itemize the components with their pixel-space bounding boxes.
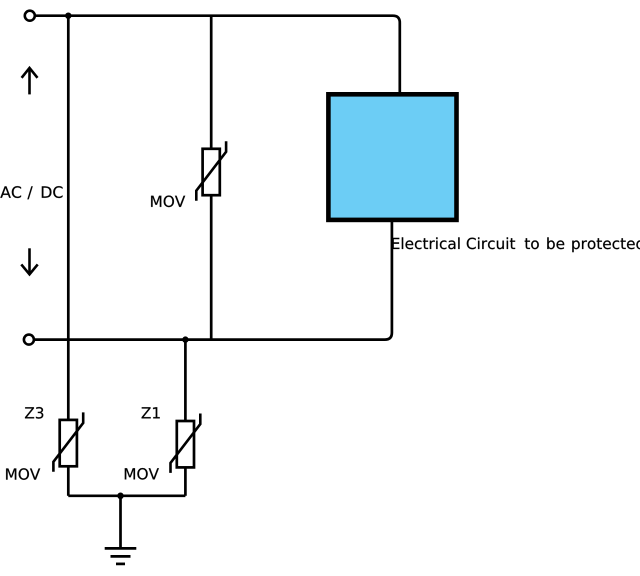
label AC / DC [0, 186, 62, 199]
label MOV right [125, 468, 159, 480]
label MOV middle [151, 196, 185, 208]
wire Z1 branch upper [184, 340, 187, 421]
varistor Z3 [53, 412, 83, 471]
label MOV left [6, 468, 40, 480]
arrow down [21, 248, 37, 274]
wire left vertical (top wire down to Z3) [67, 16, 70, 421]
wire Z3 bottom [67, 466, 70, 496]
terminal T2 bottom open circle [24, 335, 34, 345]
ground symbol [105, 548, 137, 564]
wire ground stem [119, 496, 122, 549]
label Z3 [25, 407, 43, 419]
wire box bottom to bottom horizontal [34, 221, 392, 340]
varistor Z1 [171, 414, 201, 473]
wire Z1 bottom [184, 467, 187, 495]
arrow up [22, 68, 38, 95]
wire middle branch lower (MOV to bottom wire) [210, 194, 213, 339]
node junction dot top [65, 13, 71, 19]
varistor MOV middle [196, 141, 226, 200]
wire bottom horizontal to ground stem [68, 494, 185, 497]
terminal T1 top open circle [25, 11, 35, 21]
wire top horizontal from terminal to right corner [35, 16, 400, 93]
node junction dot ground [117, 493, 124, 500]
box U1 electrical circuit (blue) [328, 94, 456, 220]
node junction dot bottom wire [182, 336, 188, 342]
label Z1 [142, 407, 160, 418]
label Electrical Circuit to be protected [392, 237, 640, 252]
wire middle branch upper (top wire to MOV) [210, 16, 213, 149]
